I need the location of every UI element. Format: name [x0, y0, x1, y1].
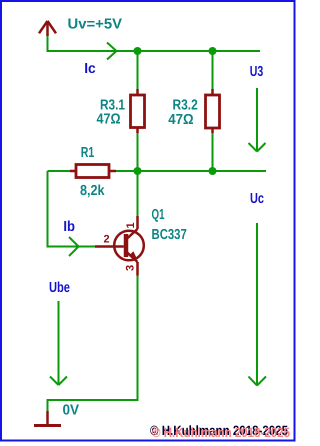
- svg-text:1: 1: [125, 222, 137, 228]
- svg-text:U3: U3: [250, 64, 264, 80]
- svg-text:Uv=+5V: Uv=+5V: [68, 17, 123, 33]
- svg-text:47Ω: 47Ω: [97, 112, 121, 128]
- svg-text:Ube: Ube: [49, 280, 70, 296]
- svg-text:Ib: Ib: [63, 219, 75, 235]
- svg-text:Uc: Uc: [250, 191, 264, 207]
- svg-text:47Ω: 47Ω: [168, 112, 194, 128]
- svg-text:© H.Kuhlmann 2018-2025: © H.Kuhlmann 2018-2025: [152, 425, 290, 440]
- svg-text:BC337: BC337: [152, 227, 187, 243]
- svg-text:0V: 0V: [63, 403, 80, 419]
- svg-text:3: 3: [125, 265, 137, 271]
- svg-text:R1: R1: [81, 145, 95, 161]
- svg-text:8,2k: 8,2k: [80, 183, 105, 199]
- svg-text:2: 2: [104, 234, 110, 246]
- svg-text:Ic: Ic: [84, 61, 96, 77]
- svg-text:Q1: Q1: [152, 207, 165, 223]
